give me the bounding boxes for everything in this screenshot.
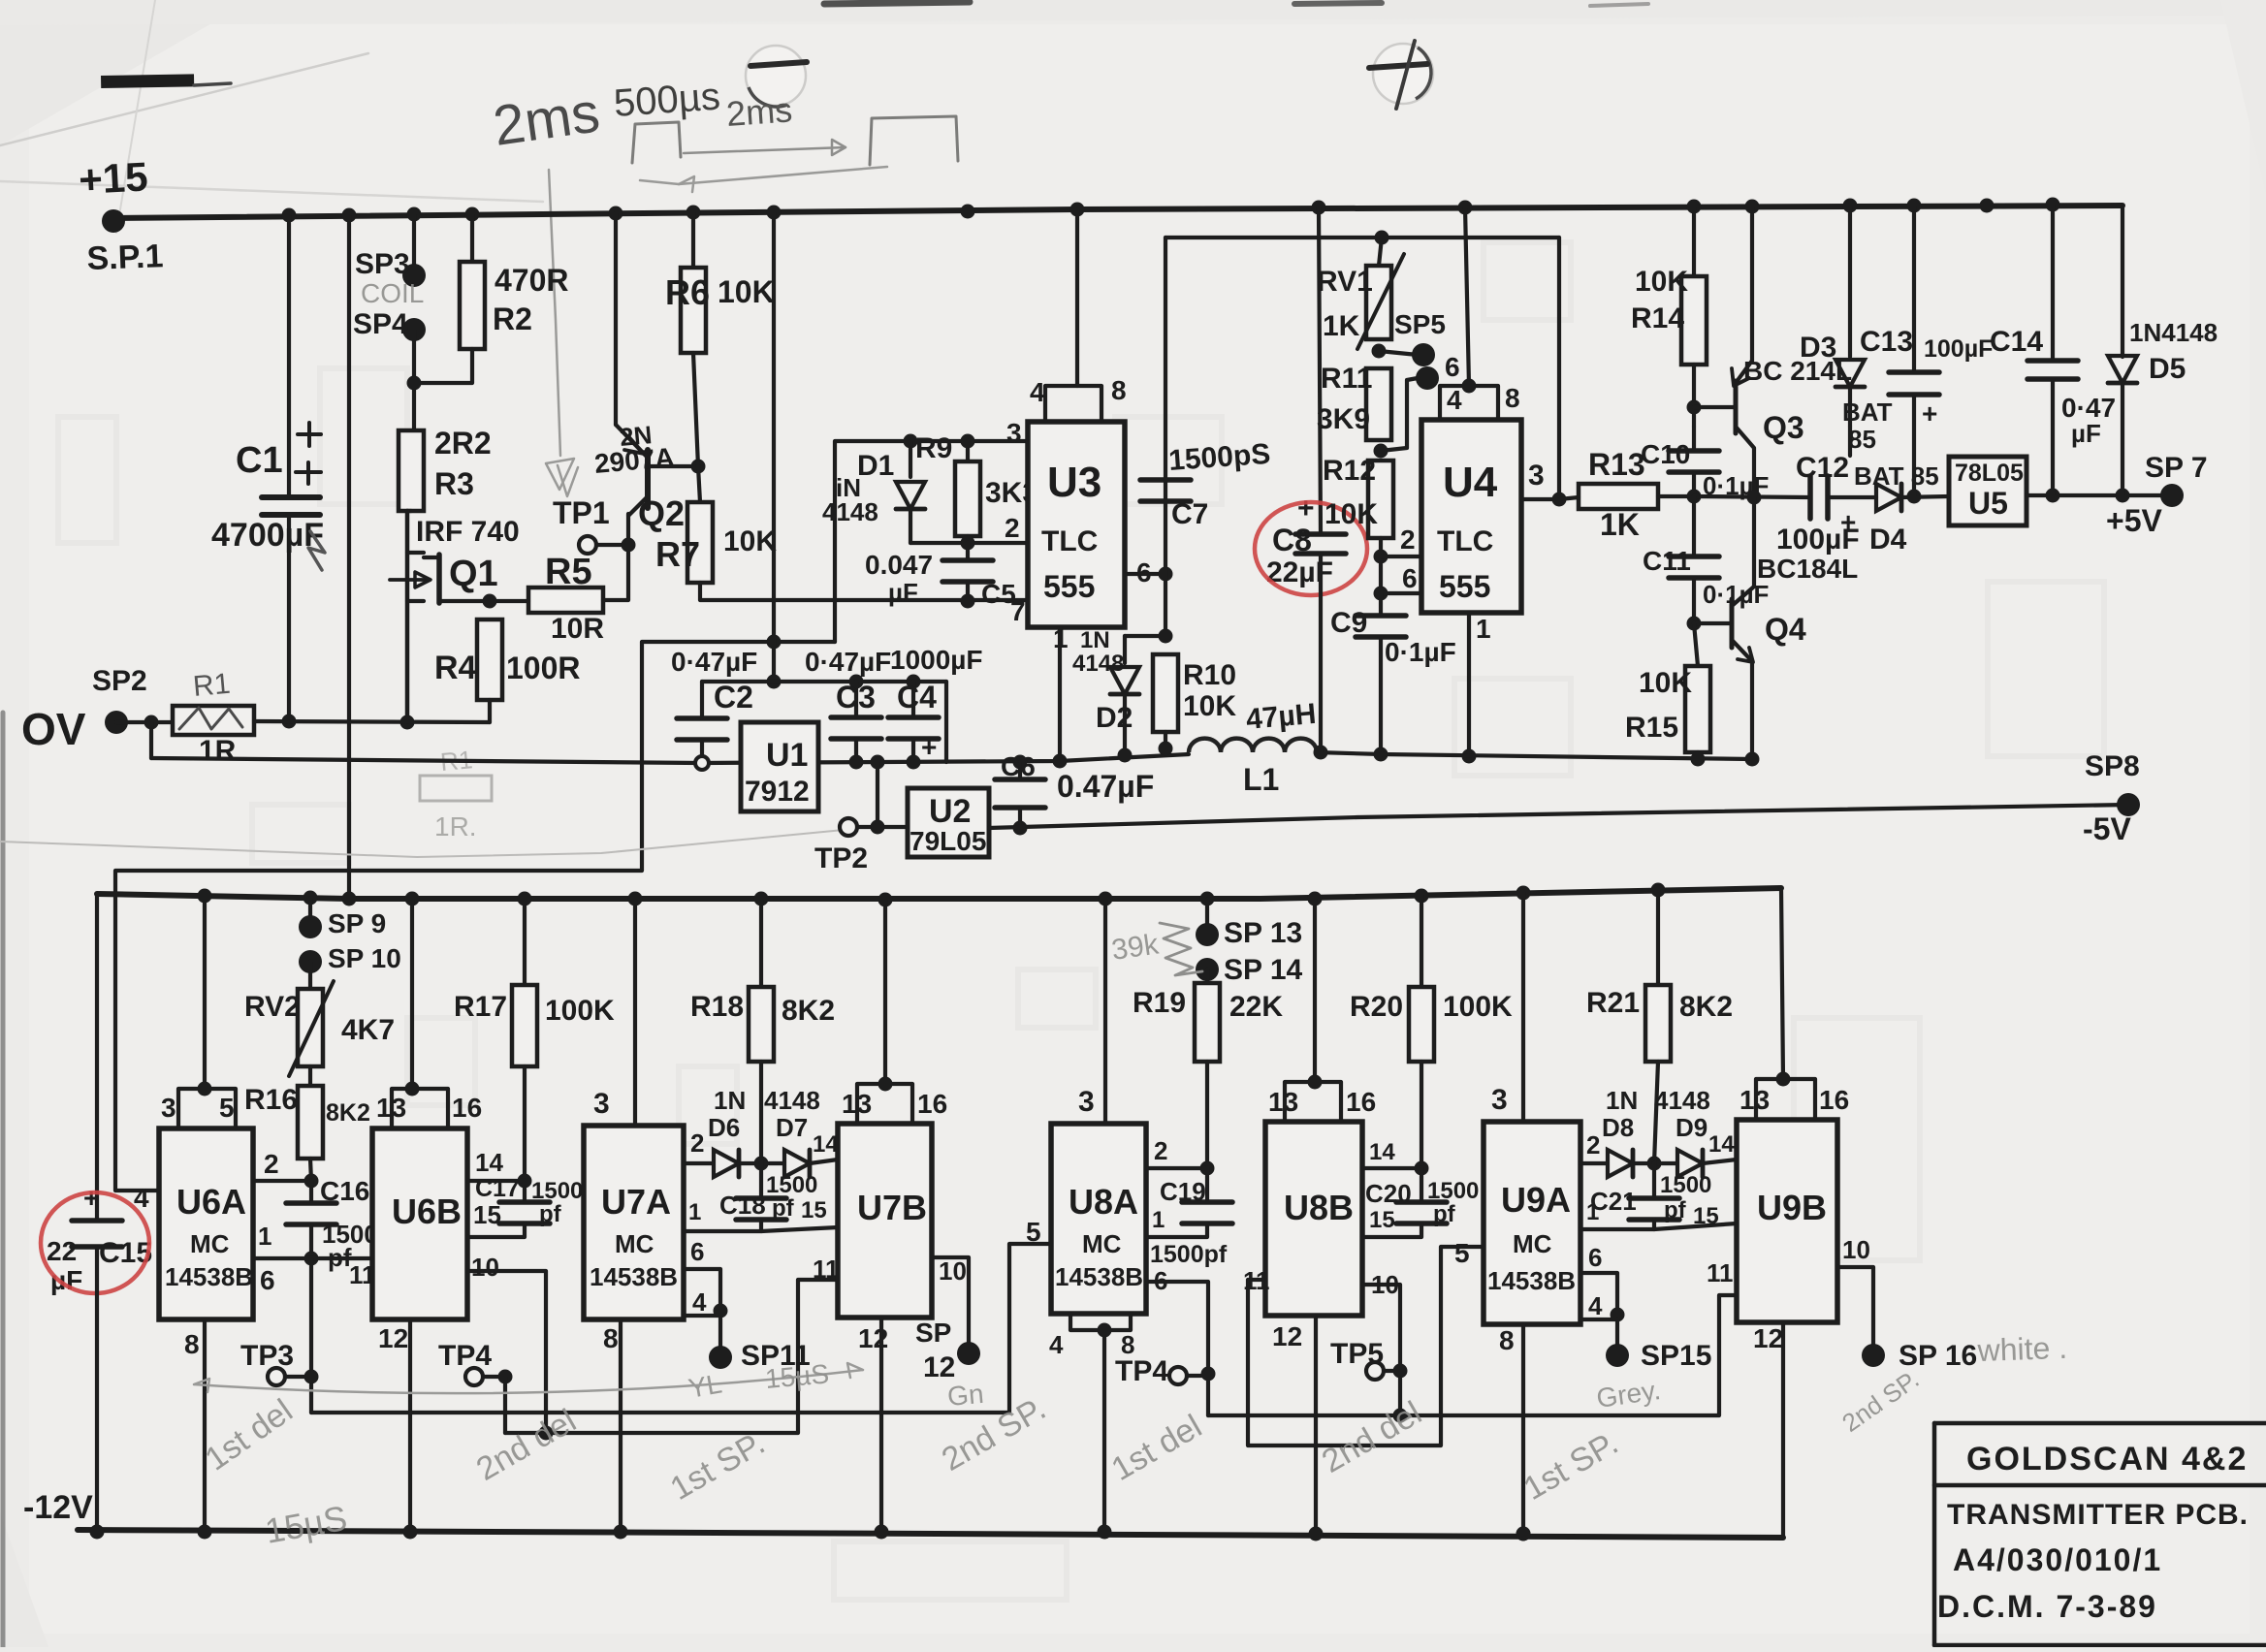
wire OV line right: [254, 721, 490, 722]
U8A pin3 riser: [1103, 900, 1107, 1124]
U4 pin4/8 bridge to rail: [1465, 207, 1469, 386]
svg-text:BAT 85: BAT 85: [1854, 461, 1939, 491]
resistor R14 10K: [1692, 206, 1696, 276]
svg-text:C17: C17: [475, 1175, 520, 1202]
svg-text:U7A: U7A: [601, 1182, 671, 1222]
wire C20 to U8B pin15: [1362, 1223, 1421, 1237]
capacitor C10 0.1uF: [1692, 427, 1696, 451]
svg-text:1: 1: [1476, 614, 1491, 644]
svg-text:5: 5: [1454, 1238, 1470, 1268]
svg-text:R15: R15: [1625, 712, 1678, 744]
svg-text:14538B: 14538B: [165, 1262, 253, 1291]
svg-text:R18: R18: [690, 991, 744, 1023]
svg-text:+: +: [1297, 492, 1315, 524]
svg-text:1: 1: [1586, 1199, 1599, 1225]
wire U8B pin11 from H4: [1248, 1247, 1484, 1445]
wire R5 right to Q2 collector: [603, 514, 628, 600]
svg-text:SP 9: SP 9: [328, 908, 386, 938]
svg-text:6: 6: [260, 1265, 275, 1295]
svg-text:MC: MC: [615, 1229, 654, 1258]
svg-text:D.C.M. 7-3-89: D.C.M. 7-3-89: [1937, 1589, 2157, 1624]
svg-text:R20: R20: [1350, 991, 1403, 1023]
svg-text:12: 12: [858, 1323, 888, 1353]
U8A pin4/8 bridge to -12V rail: [1070, 1314, 1131, 1330]
svg-text:U6A: U6A: [176, 1182, 246, 1222]
svg-text:U9A: U9A: [1501, 1180, 1571, 1220]
wire U9A pin2 to D8: [1580, 1161, 1606, 1165]
svg-text:2: 2: [264, 1149, 279, 1179]
transistor Q4 BC184L: [1694, 621, 1732, 625]
svg-text:100R: 100R: [506, 651, 581, 685]
svg-text:µF: µF: [2071, 419, 2101, 448]
svg-text:TRANSMITTER PCB.: TRANSMITTER PCB.: [1947, 1499, 2249, 1531]
wire mid rail left end down through C15: [95, 894, 99, 1221]
svg-text:L1: L1: [1243, 762, 1279, 797]
svg-text:4148: 4148: [1072, 651, 1124, 677]
U9A pin8 to -12V rail: [1521, 1324, 1525, 1534]
svg-text:R19: R19: [1133, 987, 1186, 1019]
diode D7 1N4148: [739, 1161, 761, 1165]
U9B pin12 to -12V rail: [1781, 1322, 1785, 1538]
wire C19 to U8A pin1: [1146, 1223, 1207, 1237]
svg-text:14538B: 14538B: [1055, 1262, 1143, 1291]
svg-text:10: 10: [471, 1253, 499, 1282]
svg-text:+: +: [1922, 398, 1937, 429]
node SP7 +5V: [2160, 484, 2184, 507]
resistor R13 1K: [1579, 484, 1658, 509]
svg-text:8: 8: [1505, 383, 1520, 413]
svg-text:78L05: 78L05: [1955, 460, 2024, 487]
wire U7B pin10 to SP12: [932, 1257, 969, 1348]
svg-text:10K: 10K: [718, 274, 775, 309]
svg-text:R1: R1: [192, 668, 232, 703]
wire C16 node down to TP3 and H1: [309, 1258, 313, 1413]
svg-text:SP15: SP15: [1641, 1340, 1711, 1372]
svg-text:100K: 100K: [1443, 991, 1513, 1023]
svg-text:8K2: 8K2: [1679, 991, 1733, 1023]
wire rail branch x798 down to cap bus: [772, 212, 776, 682]
svg-text:4148: 4148: [822, 497, 878, 526]
wire R21 to D8/D9 node and C21: [1654, 1062, 1658, 1163]
capacitor C14 0.47uF: [2051, 205, 2055, 361]
svg-text:12: 12: [378, 1323, 408, 1353]
svg-text:8: 8: [1121, 1330, 1134, 1359]
svg-text:1K: 1K: [1323, 310, 1360, 342]
svg-text:U1: U1: [766, 737, 808, 774]
svg-text:85: 85: [1848, 425, 1876, 454]
svg-text:0·47µF: 0·47µF: [671, 647, 757, 677]
punch hole right: [1373, 44, 1433, 104]
node SP6: [1416, 366, 1439, 390]
svg-text:R16: R16: [244, 1084, 298, 1116]
capacitor C18 1500pf: [759, 1163, 763, 1198]
svg-text:1R.: 1R.: [434, 811, 477, 842]
svg-text:6: 6: [1588, 1243, 1602, 1272]
svg-text:2R2: 2R2: [434, 426, 492, 461]
staple mark top-left: [101, 74, 194, 88]
U6A pin8 to -12V rail: [203, 1319, 207, 1530]
svg-text:6: 6: [1445, 352, 1460, 382]
svg-text:3: 3: [593, 1088, 610, 1120]
svg-text:C7: C7: [1171, 498, 1208, 530]
svg-text:MC: MC: [190, 1229, 230, 1258]
pencil ghost resistor R1 1R: [420, 776, 492, 801]
svg-text:3: 3: [1006, 418, 1022, 448]
svg-text:R10: R10: [1183, 659, 1236, 691]
capacitor C7 1500pS: [1140, 477, 1191, 483]
wire D2/R10 top: [1125, 634, 1165, 638]
node SP10: [299, 950, 322, 973]
svg-text:14538B: 14538B: [590, 1262, 678, 1291]
svg-text:3: 3: [161, 1093, 176, 1123]
node SP11: [709, 1346, 732, 1369]
IC U4 TLC555: [1421, 420, 1521, 613]
diode D5 1N4148: [2121, 206, 2124, 357]
resistor R15 10K: [1694, 623, 1698, 666]
U7A pin8 to -12V rail: [619, 1319, 622, 1532]
svg-text:SP 13: SP 13: [1224, 917, 1302, 949]
svg-text:2: 2: [1154, 1136, 1167, 1165]
resistor R1 1R (scribbled): [116, 720, 173, 724]
svg-text:2: 2: [1586, 1130, 1600, 1160]
svg-text:3K9: 3K9: [1317, 403, 1370, 435]
wire pin2 line: [910, 541, 1028, 545]
testpoint TP3: [268, 1368, 285, 1385]
wire Q1 source to R4/R5 junction: [439, 599, 490, 603]
node SP12: [957, 1342, 980, 1365]
regulator U1 7912: [741, 722, 818, 811]
svg-text:555: 555: [1439, 569, 1490, 604]
IC U7A MC14538B: [584, 1126, 684, 1319]
svg-text:pf: pf: [539, 1201, 562, 1227]
long mid line (-12V from U1): [151, 754, 1189, 763]
svg-text:C16: C16: [320, 1176, 369, 1206]
svg-text:U9B: U9B: [1757, 1188, 1827, 1227]
svg-text:1500pf: 1500pf: [1150, 1241, 1228, 1268]
capacitor C8 22uF (red circled): [1295, 531, 1346, 537]
wire R2 to SP4 node: [414, 349, 472, 383]
svg-text:white .: white .: [1976, 1330, 2068, 1368]
pot RV2 4K7: [308, 899, 312, 924]
svg-text:100µF: 100µF: [1924, 335, 1993, 363]
svg-text:15: 15: [801, 1197, 827, 1223]
svg-text:R11: R11: [1321, 363, 1372, 395]
svg-text:U5: U5: [1968, 486, 2008, 521]
svg-text:0.047: 0.047: [865, 550, 933, 580]
svg-text:SP 14: SP 14: [1224, 954, 1302, 986]
svg-text:14: 14: [1369, 1139, 1395, 1165]
punch hole left: [746, 46, 806, 106]
svg-text:IRF 740: IRF 740: [416, 516, 520, 548]
wire bus right end down: [944, 682, 948, 762]
resistor R3 2R2: [399, 430, 424, 511]
top edge marks: [824, 2, 970, 4]
svg-text:R13: R13: [1588, 447, 1645, 482]
wire +15 vertical to bottom rail: [347, 215, 351, 900]
svg-text:SP4: SP4: [353, 308, 408, 340]
svg-text:TLC: TLC: [1437, 525, 1493, 557]
svg-text:C8: C8: [1272, 523, 1312, 557]
wire R7 bottom run to U3 pin7: [700, 583, 1028, 600]
wire U3 pin6 right: [1125, 572, 1165, 576]
svg-text:+15: +15: [78, 153, 149, 203]
svg-text:13: 13: [1739, 1085, 1770, 1115]
svg-text:SP5: SP5: [1394, 309, 1446, 339]
svg-text:10K: 10K: [1183, 690, 1236, 722]
U9B pin13/16 bridge: [1781, 888, 1783, 1079]
wire U7A pin6/4 to SP11: [684, 1269, 720, 1316]
U8B pin12 to -12V rail: [1314, 1316, 1318, 1534]
svg-text:4: 4: [1030, 377, 1045, 407]
svg-text:BC184L: BC184L: [1757, 554, 1858, 584]
svg-text:1: 1: [258, 1222, 271, 1251]
wire -5V line to SP8: [989, 805, 2128, 828]
wire R5 left to R4 top junction: [490, 599, 528, 603]
svg-text:Q2: Q2: [638, 493, 685, 533]
svg-text:D9: D9: [1676, 1113, 1707, 1142]
svg-text:12: 12: [1753, 1323, 1783, 1353]
node SP4: [402, 318, 426, 341]
svg-text:79L05: 79L05: [910, 826, 986, 856]
svg-text:pf: pf: [1664, 1197, 1687, 1223]
wire U7A pin2 to D6: [684, 1161, 712, 1165]
svg-text:+: +: [1840, 507, 1856, 537]
svg-text:1500: 1500: [531, 1178, 583, 1204]
diode D9 1N4148: [1633, 1161, 1654, 1165]
svg-text:1500: 1500: [766, 1172, 817, 1198]
wire Q2 base to R6/R7: [648, 464, 698, 468]
pencil pulse sketch 1: [632, 122, 681, 163]
resistor R12 10K: [1368, 461, 1393, 538]
wire U9A pin6/4 to SP15: [1580, 1273, 1617, 1319]
diode D6 1N4148: [714, 1150, 739, 1177]
wire U9B pin10 to SP16: [1837, 1267, 1873, 1350]
resistor R6 10K: [691, 212, 695, 268]
svg-text:COIL: COIL: [361, 278, 424, 308]
rail junction dots: [282, 208, 297, 223]
svg-text:22: 22: [47, 1236, 77, 1266]
IC U6A MC14538B: [159, 1128, 253, 1319]
svg-text:C4: C4: [897, 680, 937, 715]
svg-text:14: 14: [475, 1148, 503, 1177]
resistor R5 10R: [528, 588, 603, 613]
svg-text:4: 4: [1049, 1330, 1064, 1359]
IC U8B MC14538B: [1265, 1122, 1362, 1316]
svg-text:C19: C19: [1160, 1177, 1206, 1206]
testpoint TP4: [465, 1368, 483, 1385]
capacitor C2 0.47uF: [700, 682, 704, 718]
U6A pin3/5 bridge: [203, 896, 207, 1089]
svg-text:SP8: SP8: [2085, 750, 2140, 782]
svg-text:C18: C18: [719, 1191, 766, 1220]
wire R19 to U8A pin2: [1205, 1062, 1209, 1168]
svg-text:16: 16: [1819, 1085, 1849, 1115]
line H3 to U9B pin11: [1208, 1295, 1737, 1415]
resistor R19 22K: [1205, 969, 1209, 983]
wire Q3/Q4 collector join: [1752, 497, 1756, 587]
svg-text:6: 6: [1154, 1266, 1167, 1295]
wire U8A pin6 to TP4b and H3: [1146, 1282, 1208, 1371]
wire C21 to U9A pin1 / U9B pin15: [1580, 1220, 1654, 1229]
wire trigger line from U3 pin3 box to U6A pin4: [115, 642, 835, 1191]
svg-text:3: 3: [1528, 460, 1545, 492]
wire C8 down to L1 node: [1319, 554, 1323, 752]
capacitor C11 0.1uF: [1692, 496, 1696, 556]
svg-text:555: 555: [1043, 569, 1095, 604]
svg-text:R12: R12: [1323, 455, 1376, 487]
svg-text:TP4: TP4: [438, 1340, 492, 1372]
svg-text:SP3: SP3: [355, 248, 410, 280]
svg-text:pf: pf: [772, 1195, 795, 1222]
-12V rail junction dots: [90, 1525, 105, 1540]
svg-text:µF: µF: [888, 578, 918, 607]
regulator U2 79L05: [871, 755, 885, 770]
left scan edge: [1, 713, 6, 1647]
wire R18 to D6/D7 node and C18: [759, 1062, 763, 1163]
svg-text:1: 1: [1152, 1207, 1165, 1233]
svg-text:10R: 10R: [551, 613, 604, 645]
node S.P.1: [102, 209, 125, 233]
diode D8 1N4148: [1608, 1150, 1633, 1177]
svg-text:R2: R2: [493, 302, 532, 336]
svg-text:D6: D6: [708, 1113, 740, 1142]
capacitor C17 1500pf: [523, 1181, 527, 1202]
svg-text:14538B: 14538B: [1487, 1266, 1576, 1295]
svg-text:U2: U2: [929, 793, 971, 830]
U6B pin12 to -12V rail: [408, 1319, 412, 1530]
svg-text:C2: C2: [714, 680, 753, 715]
svg-text:D4: D4: [1869, 524, 1907, 556]
node SP14: [1196, 958, 1219, 981]
wire rail to C8: [1319, 207, 1321, 534]
mid rail junction dots: [198, 889, 212, 904]
svg-text:5: 5: [219, 1093, 235, 1123]
resistor R17 100K: [523, 899, 527, 985]
svg-text:5: 5: [1026, 1217, 1041, 1247]
svg-text:3: 3: [1078, 1086, 1095, 1118]
testpoint TP5: [1366, 1362, 1384, 1380]
Q1 channel bar: [436, 555, 442, 603]
resistor R11 3K9: [1366, 368, 1391, 440]
svg-text:R4: R4: [434, 650, 477, 686]
svg-text:11: 11: [1707, 1258, 1734, 1287]
svg-text:S.P.1: S.P.1: [86, 238, 164, 277]
svg-text:1K: 1K: [1600, 507, 1640, 542]
U6B pin13/16 bridge: [410, 899, 414, 1089]
wire R17 to U6B pin14 / C17: [523, 1066, 527, 1181]
svg-text:D3: D3: [1800, 332, 1836, 364]
resistor R7 10K: [698, 466, 700, 502]
svg-text:1000µF: 1000µF: [890, 645, 983, 675]
svg-text:SP 7: SP 7: [2145, 452, 2208, 484]
svg-text:12: 12: [1272, 1321, 1302, 1351]
svg-text:SP2: SP2: [92, 665, 147, 697]
wire U4 pin1 down: [1467, 613, 1471, 756]
svg-text:4148: 4148: [1654, 1086, 1710, 1115]
U9A pin3 riser: [1521, 892, 1525, 1122]
wire U8B pin10 to H3 and TP5: [1362, 1285, 1400, 1415]
inductor L1 47uH: [1189, 739, 1317, 752]
transistor Q3 BC214L: [1750, 206, 1754, 361]
capacitor C19 1500pf: [1205, 1168, 1209, 1202]
line H1 from C16 node to U8A pin5: [311, 1244, 1051, 1413]
svg-text:R7: R7: [655, 534, 700, 574]
wire L1 to C8/C9 node: [1317, 752, 1382, 754]
svg-text:A4/030/010/1: A4/030/010/1: [1953, 1542, 2162, 1577]
svg-text:R21: R21: [1586, 987, 1640, 1019]
wire U4 pin3 out: [1521, 497, 1559, 501]
diode D3 BAT85: [1848, 206, 1852, 357]
mid supply rail: [97, 888, 1781, 899]
resistor R20 100K: [1420, 895, 1423, 987]
svg-text:1N: 1N: [1080, 627, 1110, 653]
svg-text:-12V: -12V: [23, 1489, 93, 1526]
svg-text:3: 3: [1491, 1084, 1508, 1116]
svg-text:500µs: 500µs: [613, 75, 722, 125]
capacitor C21 1500pf: [1652, 1163, 1656, 1198]
svg-text:C9: C9: [1330, 607, 1367, 639]
svg-text:10K: 10K: [1639, 667, 1692, 699]
capacitor C6 0.47uF: [1013, 755, 1028, 770]
svg-text:2: 2: [1400, 524, 1416, 555]
junction R11/R12: [1374, 444, 1388, 459]
capacitor C3 0.47uF: [854, 682, 858, 717]
svg-text:C1: C1: [236, 440, 283, 481]
svg-text:8: 8: [1111, 375, 1127, 405]
svg-text:TP5: TP5: [1330, 1338, 1384, 1370]
node SP5: [1372, 344, 1387, 359]
svg-text:Gn: Gn: [946, 1379, 985, 1412]
svg-text:10: 10: [1371, 1270, 1399, 1299]
svg-text:2: 2: [1005, 513, 1020, 543]
svg-text:39k: 39k: [1109, 928, 1161, 967]
svg-text:C20: C20: [1365, 1179, 1412, 1208]
svg-text:OV: OV: [21, 704, 86, 754]
svg-text:C12: C12: [1796, 452, 1849, 484]
svg-text:R5: R5: [545, 552, 592, 592]
svg-text:4: 4: [1588, 1291, 1603, 1320]
capacitor C13 100uF: [1912, 206, 1916, 372]
wire C1 from rail: [287, 215, 291, 497]
node SP16: [1862, 1344, 1885, 1367]
print-through ghosts: [320, 368, 407, 504]
svg-text:10K: 10K: [1324, 498, 1378, 530]
svg-text:+: +: [921, 732, 937, 762]
IC U8A MC14538B: [1051, 1124, 1146, 1314]
wire U3 pin1 to ground line: [1058, 627, 1062, 761]
svg-text:U3: U3: [1047, 459, 1101, 506]
node SP3: [402, 264, 426, 287]
svg-text:1500: 1500: [1660, 1172, 1711, 1198]
svg-text:1N4148: 1N4148: [2129, 318, 2218, 347]
svg-text:+: +: [83, 1183, 99, 1213]
capacitor C12 100uF: [1807, 476, 1813, 519]
svg-text:R3: R3: [434, 466, 474, 501]
svg-text:SP 10: SP 10: [328, 943, 401, 973]
svg-text:C13: C13: [1860, 326, 1913, 358]
svg-text:1N: 1N: [1606, 1086, 1638, 1115]
Q1 gate arrow: [390, 578, 427, 582]
svg-text:U4: U4: [1443, 459, 1498, 506]
bottom line U4 area: [1381, 754, 1752, 759]
svg-text:D8: D8: [1602, 1113, 1634, 1142]
svg-text:10: 10: [1842, 1235, 1870, 1264]
crease lines top left: [0, 53, 368, 145]
IC U6B MC14538B: [372, 1128, 467, 1319]
svg-text:TP4: TP4: [1115, 1355, 1168, 1387]
node SP8 -5V: [2117, 793, 2140, 816]
wire SP3/SP4 branch: [412, 214, 416, 272]
